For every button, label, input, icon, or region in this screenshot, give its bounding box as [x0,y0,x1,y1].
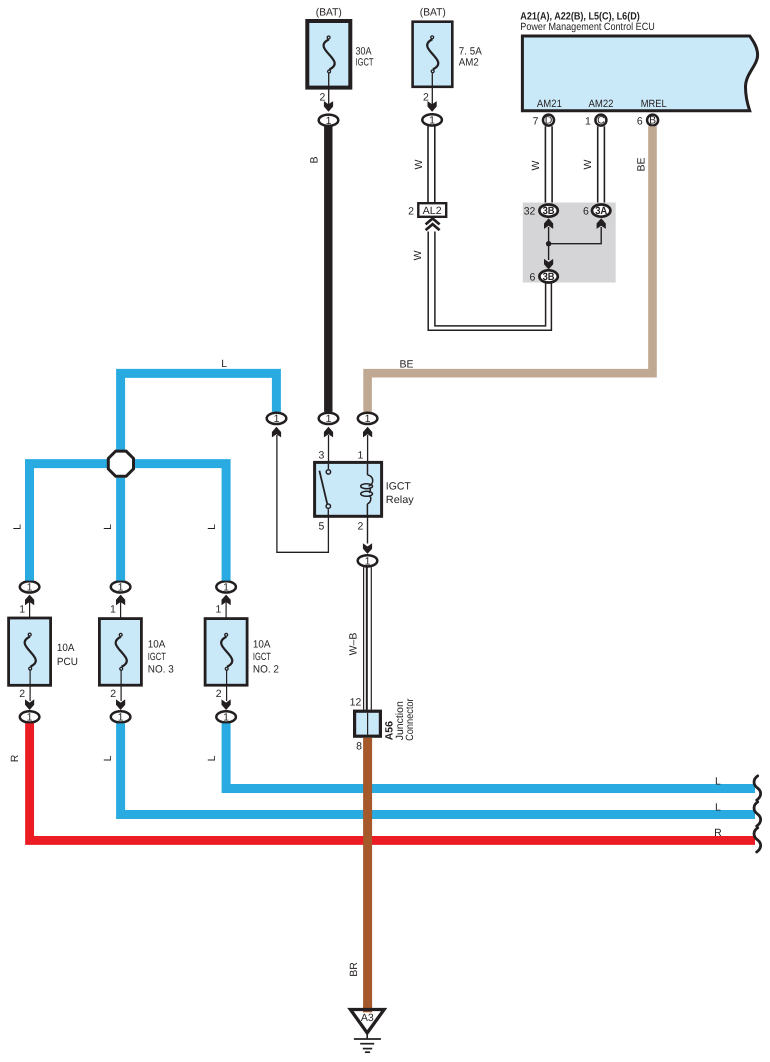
junction node and branch wires [544,227,601,270]
svg-text:Relay: Relay [386,494,415,506]
ECU A21(A), A22(B), L5(C), L6(D) Power Management Control ECU [520,10,757,110]
svg-text:L: L [206,755,218,761]
svg-text:L: L [221,358,227,370]
svg-text:L: L [11,524,23,530]
svg-text:3: 3 [319,450,325,462]
svg-text:1: 1 [19,604,25,616]
fuse 10A PCU [9,595,78,710]
wire B [308,127,332,412]
connector 1 below NO.2 fuse [216,711,236,723]
fuse 10A IGCT NO. 2 [205,595,279,710]
connector 1 above NO.3 fuse [111,581,131,593]
svg-text:(BAT): (BAT) [420,7,446,19]
svg-text:BE: BE [635,157,647,171]
svg-text:B: B [649,114,656,126]
wire BR [348,738,372,1008]
svg-text:IGCT: IGCT [148,651,166,663]
relay IGCT [315,450,415,533]
svg-text:3B: 3B [543,271,555,283]
svg-text:R: R [9,754,21,762]
wire R bottom from PCU fuse [9,723,755,840]
svg-text:32: 32 [524,206,536,218]
connector 1 above NO.2 fuse [216,581,236,593]
wire L middle branch [102,478,121,581]
svg-text:2: 2 [216,688,222,700]
svg-text:2: 2 [19,688,25,700]
wire from relay pin 5 to connector [277,435,329,552]
svg-text:10A: 10A [148,639,166,651]
svg-text:BE: BE [400,358,414,370]
wire W from AM21 [530,126,552,203]
svg-text:AM22: AM22 [589,98,614,110]
svg-text:R: R [714,827,722,839]
svg-text:1: 1 [216,604,222,616]
svg-text:IGCT: IGCT [356,57,374,69]
svg-text:L: L [102,524,114,530]
svg-text:A3: A3 [361,1012,374,1024]
continuation squiggle L2 [754,802,761,826]
wire W-B [348,567,372,710]
svg-text:3B: 3B [543,205,555,217]
svg-text:5: 5 [319,520,325,532]
svg-text:W: W [582,159,594,169]
svg-text:1: 1 [585,115,591,127]
connector 1 on wire BE [358,413,378,463]
wire W from AM2 fuse to AL2 [413,126,435,203]
connector 3A pin 6 [583,205,610,229]
svg-text:L: L [715,801,721,813]
svg-text:W: W [530,160,542,170]
svg-text:IGCT: IGCT [253,651,271,663]
wire BE from MREL to relay [368,126,653,412]
pin 6 (B) MREL [637,114,658,127]
svg-text:3A: 3A [595,205,607,217]
svg-text:Connector: Connector [404,698,416,741]
svg-text:(BAT): (BAT) [316,7,342,19]
svg-text:10A: 10A [253,639,271,651]
wire from relay pin 2 [363,516,372,554]
connector 1 below relay [358,555,378,567]
svg-text:NO. 2: NO. 2 [253,664,279,676]
wire L bottom from NO.2 fuse [206,723,755,788]
ground A3 [350,1006,384,1053]
svg-text:L: L [715,775,721,787]
svg-text:C: C [597,114,605,126]
connector AL2 [408,203,446,230]
pin 7 (D) AM21 [533,114,554,127]
svg-text:10A: 10A [57,642,75,654]
svg-text:L: L [102,755,114,761]
svg-text:IGCT: IGCT [386,481,412,493]
svg-text:6: 6 [583,206,589,218]
connector 1 on wire L [267,413,287,438]
svg-text:Power Management Control ECU: Power Management Control ECU [520,21,655,33]
continuation squiggle L1 [754,776,761,800]
wire L left branch [11,464,107,581]
wire W from AM22 [582,126,604,203]
svg-text:BR: BR [348,962,360,977]
wire L bottom from NO.3 fuse [102,723,755,814]
connector 1 below AM2 fuse [422,114,442,126]
connector 1 above PCU fuse [20,581,40,593]
wire L top run [121,358,277,450]
connector 1 below NO.3 fuse [111,711,131,723]
svg-text:1: 1 [357,450,363,462]
svg-text:8: 8 [356,741,362,753]
svg-text:D: D [545,114,553,126]
svg-text:12: 12 [350,697,362,709]
connector 1 below PCU fuse [20,711,40,723]
svg-text:AL2: AL2 [423,205,442,217]
fuse 10A IGCT NO. 3 [99,595,174,710]
svg-text:1: 1 [110,604,116,616]
svg-text:W: W [412,250,424,260]
junction octagon [108,451,133,476]
svg-text:6: 6 [530,271,536,283]
svg-text:MREL: MREL [641,98,667,110]
fuse 7.5A AM2 [413,7,482,112]
svg-text:2: 2 [110,688,116,700]
svg-text:6: 6 [637,115,643,127]
svg-text:NO. 3: NO. 3 [148,664,174,676]
connector 1 below 30A fuse [319,115,339,127]
fuse 30A IGCT [307,7,374,112]
wire L right branch [135,464,226,581]
connector 3B pin 6 [530,270,558,283]
svg-text:W: W [413,159,425,169]
svg-text:AM2: AM2 [459,57,479,69]
continuation squiggle R [754,828,761,852]
wire W from AL2 to junction 3B [412,232,552,331]
svg-text:B: B [308,156,320,163]
connector 1 on wire B [319,413,339,463]
svg-text:W–B: W–B [348,633,360,656]
svg-text:PCU: PCU [57,656,78,668]
connector 3B pin 32 [524,205,558,229]
svg-text:7: 7 [533,115,539,127]
svg-text:2: 2 [357,520,363,532]
pin 1 (C) AM22 [585,114,606,127]
junction connector A56 [350,697,416,753]
svg-text:2: 2 [408,206,414,218]
junction block shading [523,203,616,283]
svg-text:L: L [206,524,218,530]
svg-text:AM21: AM21 [537,98,562,110]
